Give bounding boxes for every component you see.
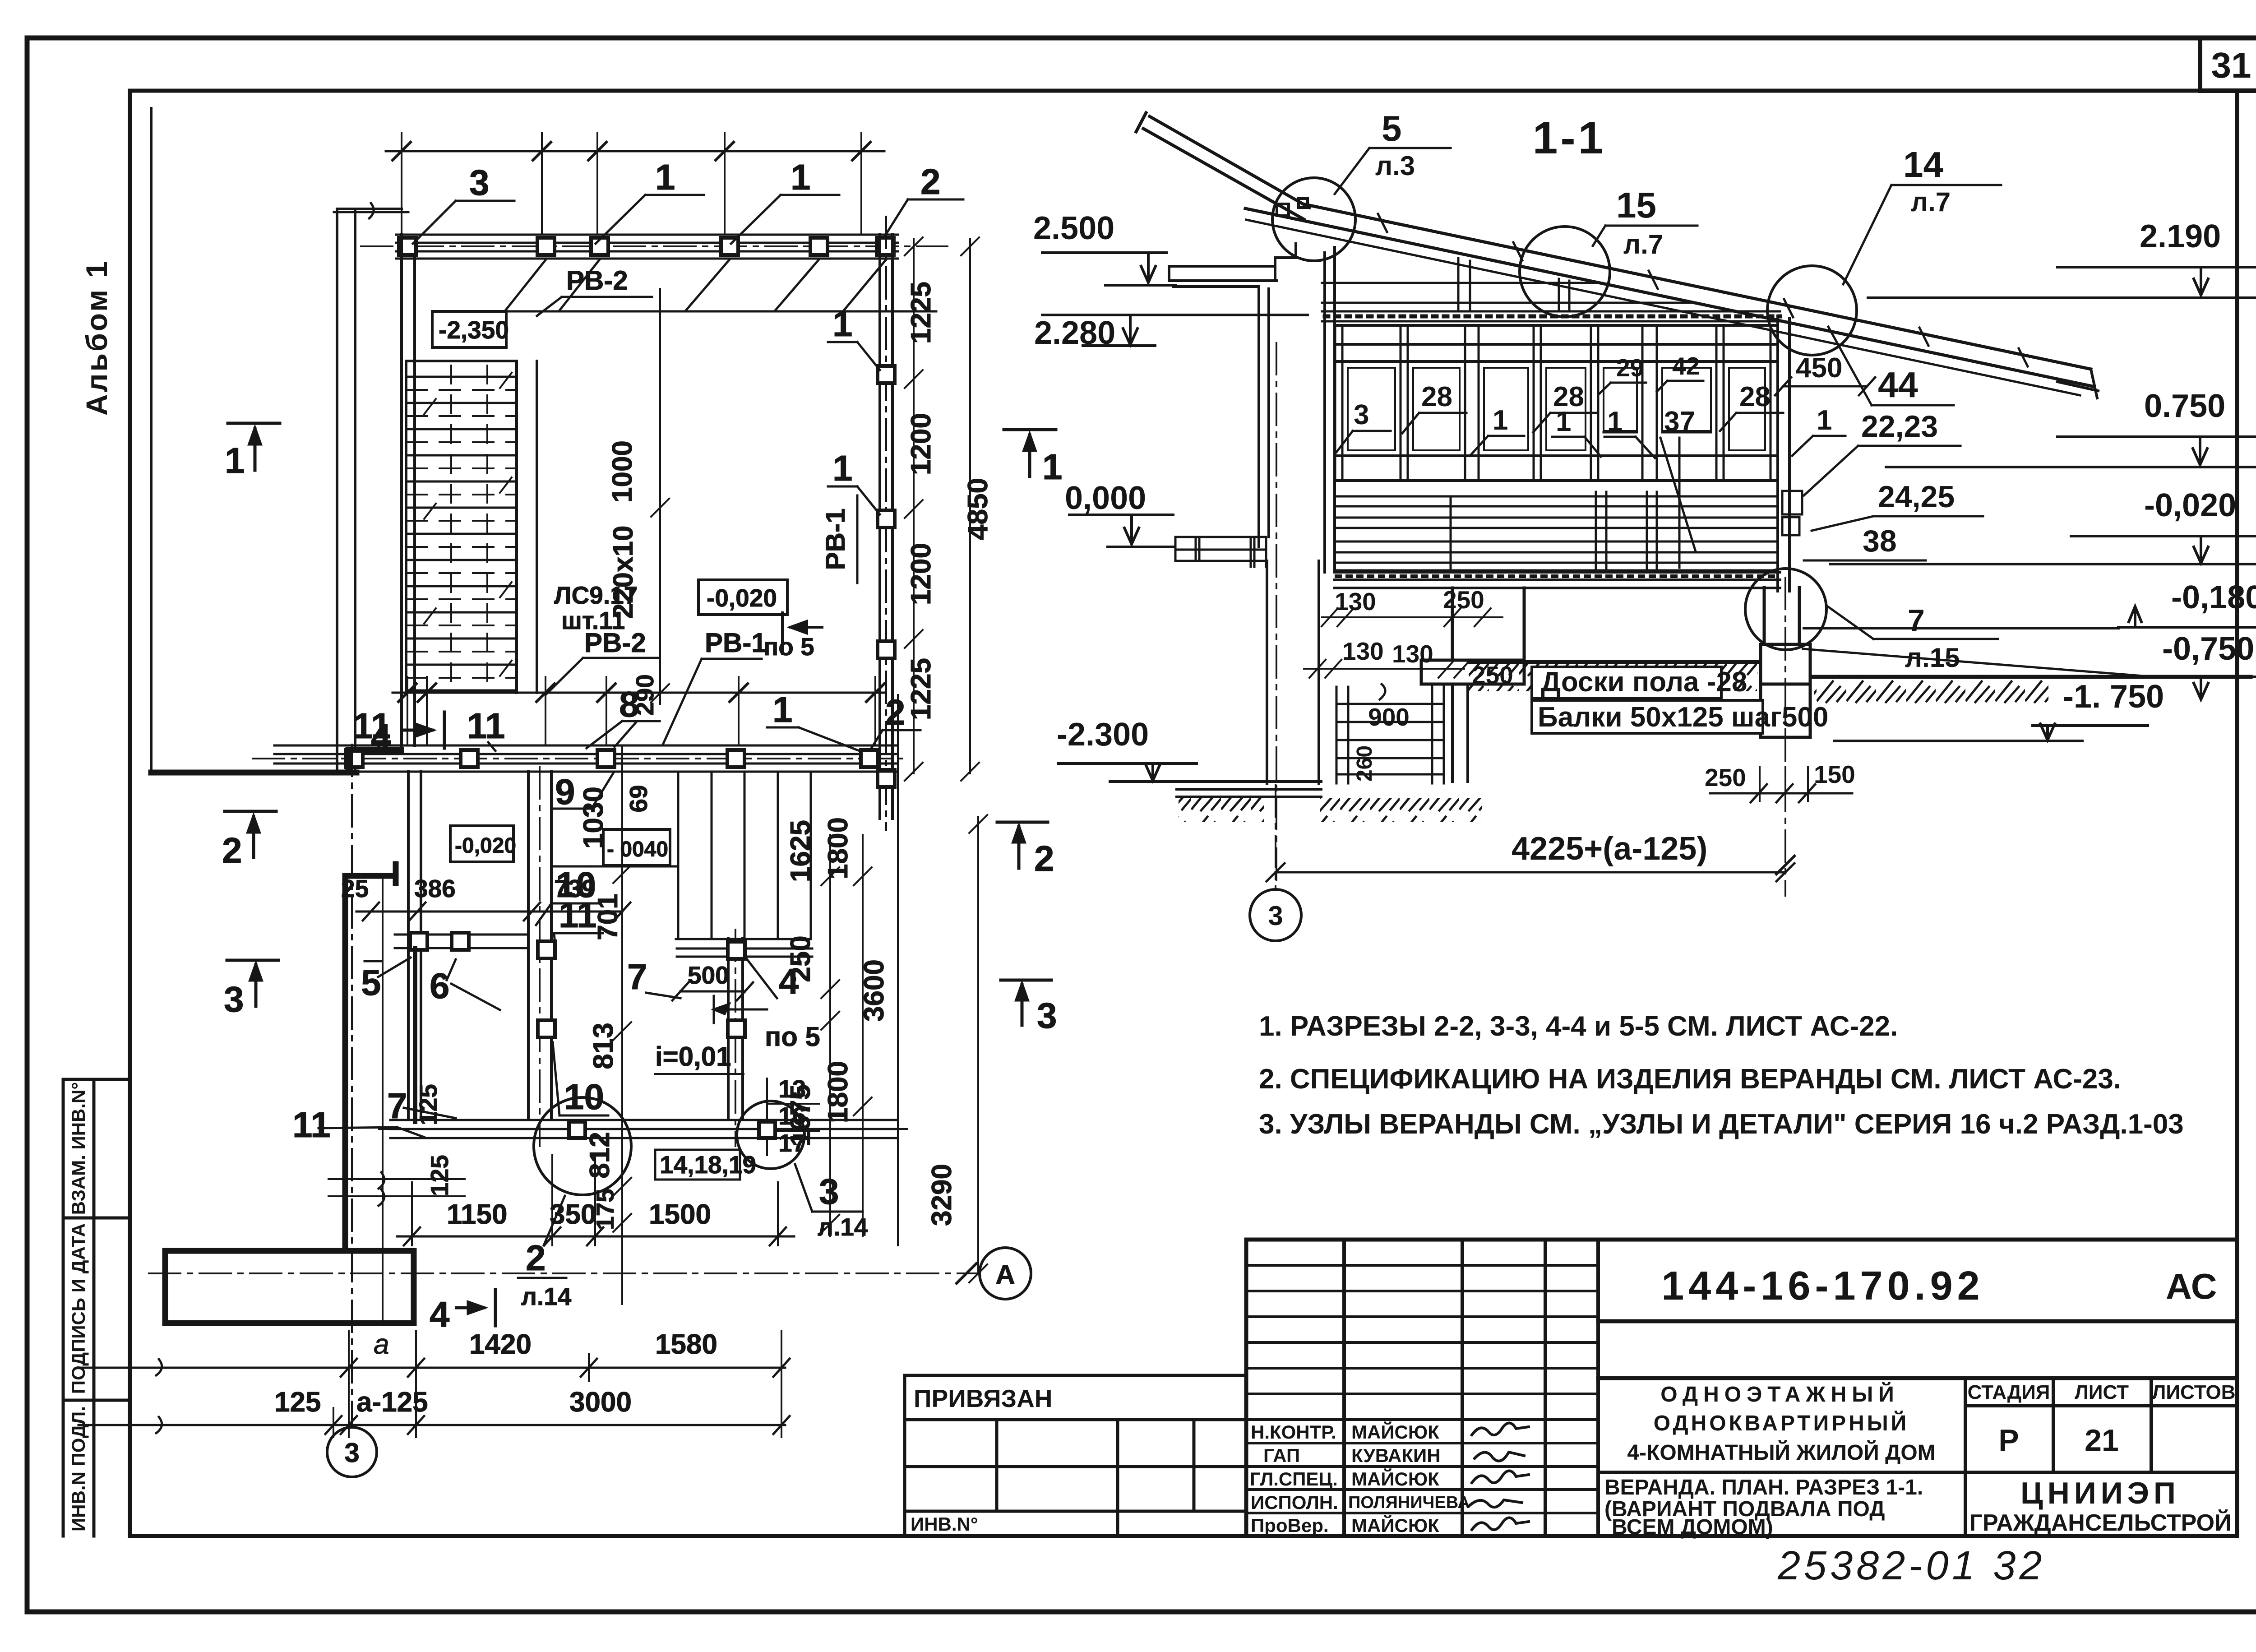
svg-text:250: 250 [1472,661,1513,689]
svg-text:МАЙСЮК: МАЙСЮК [1351,1421,1439,1443]
svg-text:3: 3 [344,1438,359,1468]
east wall [880,235,892,819]
svg-text:л.14: л.14 [818,1213,868,1241]
svg-text:3. УЗЛЫ ВЕРАНДЫ СМ. „УЗЛЫ И Д: 3. УЗЛЫ ВЕРАНДЫ СМ. „УЗЛЫ И ДЕТАЛИ" СЕРИ… [1259,1109,2184,1140]
floor note box 2 [1532,700,1763,733]
svg-text:РВ-2: РВ-2 [584,628,646,658]
svg-text:по 5: по 5 [763,633,814,661]
svg-text:31: 31 [2211,45,2251,85]
svg-text:-2.300: -2.300 [1057,717,1149,753]
svg-text:ОДНОЭТАЖНЫЙ: ОДНОЭТАЖНЫЙ [1660,1382,1900,1407]
lower east axis [735,930,736,1146]
svg-text:л.3: л.3 [1375,151,1415,181]
svg-text:по 5: по 5 [765,1022,820,1052]
svg-text:11: 11 [559,895,597,935]
title block outline [1246,1240,2237,1536]
svg-text:8: 8 [619,684,639,724]
bottom span dim [1267,863,1794,881]
svg-text:11: 11 [292,1105,331,1145]
svg-text:500: 500 [688,961,729,989]
left strip foundation [1421,588,1524,684]
svg-text:4850: 4850 [962,478,994,540]
svg-text:3: 3 [1354,399,1369,430]
basement level label [432,311,506,347]
section mark 2 left [225,811,276,857]
aux vertical line [382,878,384,1321]
window sashes [1348,368,1765,450]
section mark 3 right [1001,980,1051,1025]
wall corner piece [348,750,401,767]
svg-text:2. СПЕЦИФИКАЦИЮ НА ИЗДЕЛИЯ ВЕ: 2. СПЕЦИФИКАЦИЮ НА ИЗДЕЛИЯ ВЕРАНДЫ СМ. Л… [1259,1064,2121,1095]
svg-text:4-КОМНАТНЫЙ ЖИЛОЙ ДОМ: 4-КОМНАТНЫЙ ЖИЛОЙ ДОМ [1627,1440,1935,1465]
pier detail circle [1745,569,1826,650]
svg-text:3600: 3600 [859,959,890,1022]
signatures script [1472,1423,1529,1435]
dim 4850 line [961,237,979,781]
svg-text:1-1: 1-1 [1533,113,1606,163]
svg-text:350: 350 [550,1199,596,1230]
lower room south wall [390,1120,898,1138]
svg-text:6: 6 [430,966,450,1006]
west wall [402,235,415,745]
top dimension line [386,150,884,153]
leader 1a [596,195,704,244]
box 14 18 19 [655,1150,740,1180]
svg-text:7: 7 [1908,603,1925,638]
svg-text:7: 7 [627,957,647,997]
level box -0040 [603,829,670,865]
svg-text:1: 1 [225,440,245,481]
section mark 3 left [227,960,278,1006]
axis circle A [980,1248,1031,1299]
svg-text:ЦНИИЭП: ЦНИИЭП [2020,1476,2180,1510]
svg-text:1. РАЗРЕЗЫ 2-2, 3-3, 4-4 и 5-: 1. РАЗРЕЗЫ 2-2, 3-3, 4-4 и 5-5 СМ. ЛИСТ … [1259,1011,1898,1042]
top dim extension lines [402,133,861,235]
svg-text:29: 29 [1616,354,1644,382]
svg-text:1580: 1580 [655,1329,717,1360]
svg-text:1: 1 [832,304,853,344]
stair well [406,361,537,693]
south wall band [274,745,898,772]
small rail top lower room [395,935,528,948]
svg-text:a: a [374,1329,389,1360]
svg-text:1: 1 [655,157,675,197]
east post leaders 1 [828,342,880,370]
svg-text:ВЕРАНДА. ПЛАН. РАЗРЕЗ 1-1.: ВЕРАНДА. ПЛАН. РАЗРЕЗ 1-1. [1604,1476,1923,1499]
revision grid rows [1246,1265,1598,1513]
corner post right [1778,316,1789,591]
lower south posts [569,1122,775,1138]
bottom dim row 1150 350 1500 [397,1227,794,1245]
ground line left [1469,660,1757,664]
roof detail circle 3 [1767,266,1857,355]
south axis lower [379,1128,907,1130]
svg-text:АС: АС [2166,1266,2217,1306]
svg-text:250: 250 [1705,764,1746,791]
svg-text:900: 900 [1368,703,1410,731]
right lower dim column [821,835,839,1236]
svg-text:1: 1 [791,157,811,197]
svg-text:2.190: 2.190 [2140,218,2221,255]
svg-text:Н.КОНТР.: Н.КОНТР. [1251,1421,1336,1443]
svg-text:ПРИВЯЗАН: ПРИВЯЗАН [914,1384,1053,1412]
lower west axis [539,767,541,1146]
south wall posts [346,750,878,767]
floor dotted band [1335,572,1780,580]
left stamp strip [63,1079,130,1536]
svg-text:150: 150 [1814,760,1855,788]
svg-text:2: 2 [885,692,906,732]
svg-text:1000: 1000 [607,440,638,503]
leader 2 [883,199,963,238]
svg-text:11: 11 [467,706,505,746]
svg-text:ЛИСТОВ: ЛИСТОВ [2152,1381,2236,1403]
detail circle small [737,1101,804,1169]
svg-text:38: 38 [1863,524,1897,558]
pit right wall [1452,684,1468,782]
ground hatch right [1814,678,2048,705]
svg-text:1800: 1800 [823,1061,854,1123]
svg-text:4: 4 [371,717,391,757]
svg-text:РВ-2: РВ-2 [566,265,628,296]
svg-text:260: 260 [1353,745,1377,782]
rafter ticks [1378,214,2028,366]
svg-text:2.500: 2.500 [1033,210,1114,246]
svg-text:28: 28 [1739,381,1771,412]
svg-text:28: 28 [1421,381,1452,412]
interior dim line vertical [651,289,669,704]
svg-text:Р: Р [1998,1423,2019,1458]
svg-text:1420: 1420 [469,1329,532,1360]
svg-text:-2,350: -2,350 [439,316,509,344]
entrance step [1175,537,1266,567]
svg-text:130: 130 [1392,640,1433,668]
basement floor [1177,782,1321,797]
svg-text:7: 7 [387,1086,407,1126]
window frame verticals [1335,325,1778,481]
svg-text:л.7: л.7 [1911,187,1951,217]
left break lines [328,1179,465,1196]
svg-text:1500: 1500 [649,1199,711,1230]
svg-text:1150: 1150 [447,1199,508,1230]
break mark left dims [156,1359,162,1433]
section mark 2 right [997,822,1048,868]
svg-text:450: 450 [1796,352,1842,384]
svg-text:СТАДИЯ: СТАДИЯ [1968,1381,2050,1403]
section mark 1 left [228,423,280,470]
stair dashed mid treads [406,390,517,678]
roof detail circle 2 [1520,227,1610,317]
svg-text:ЛС9.17: ЛС9.17 [554,581,638,609]
detail circle big [534,1097,631,1195]
dim row 25 386 739 [356,902,630,921]
svg-text:4: 4 [430,1294,450,1334]
svg-text:ЛИСТ: ЛИСТ [2075,1381,2129,1403]
break squiggles [379,1172,384,1206]
svg-text:0.750: 0.750 [2144,388,2225,424]
cornice left [1169,244,1296,287]
pier axis [1784,578,1786,896]
house wall [1259,289,1319,783]
svg-text:250: 250 [785,935,816,982]
svg-text:-0,020: -0,020 [707,584,777,612]
house south wall thick [151,770,356,776]
top dim ticks [393,142,870,160]
svg-text:1200: 1200 [906,543,937,605]
roof main top chord [1303,204,2091,369]
balustrade boards [1336,496,1778,570]
east wall axis [885,217,887,830]
svg-text:2: 2 [222,830,242,870]
svg-text:0,000: 0,000 [1065,480,1146,516]
roof detail circle 1 [1272,178,1355,261]
lower room posts [538,941,745,1037]
svg-text:250: 250 [1443,586,1484,614]
svg-text:5: 5 [361,963,381,1003]
svg-text:3: 3 [469,162,490,203]
house edge walls lower [408,772,421,1119]
svg-text:37: 37 [1664,406,1695,437]
privyazan box [905,1375,1246,1536]
roof rafter upper steep [1136,113,1309,219]
svg-text:813: 813 [588,1023,619,1069]
svg-text:3: 3 [1037,995,1057,1036]
svg-text:ИНВ.N°: ИНВ.N° [911,1513,978,1535]
svg-text:4225+(a-125): 4225+(a-125) [1512,831,1707,867]
svg-text:ПОЛЯНИЧЕВА: ПОЛЯНИЧЕВА [1348,1493,1470,1512]
wire top-left extension [334,203,408,218]
svg-text:А: А [995,1259,1015,1290]
lower room east wall [728,939,743,1119]
floor beam line [1335,587,1780,589]
porch wall thick [345,864,396,1251]
revision grid verticals [1344,1240,1598,1536]
roof end cap [2057,369,2098,398]
svg-text:КУВАКИН: КУВАКИН [1351,1445,1441,1466]
svg-text:3: 3 [819,1171,839,1212]
svg-text:РВ-1: РВ-1 [705,628,767,658]
house west edge [150,108,153,773]
corridor dim line [613,747,631,1304]
svg-text:МАЙСЮК: МАЙСЮК [1351,1468,1439,1490]
post squares top wall [399,238,894,255]
level box -0,020 [698,580,787,615]
ridge joint hardware [1277,204,1289,216]
svg-text:ИСПОЛН.: ИСПОЛН. [1251,1492,1338,1513]
svg-text:1: 1 [1817,405,1832,436]
dim 500 [672,982,753,1000]
svg-text:25382-01 32: 25382-01 32 [1777,1543,2045,1588]
svg-text:22,23: 22,23 [1861,409,1938,444]
lower room west wall [528,772,551,1119]
ground slope from pier [1803,649,2143,676]
svg-text:1625: 1625 [785,820,816,882]
axis 3 section line [1275,785,1276,888]
svg-text:1: 1 [1556,406,1571,437]
svg-text:3: 3 [224,979,244,1019]
svg-text:МАЙСЮК: МАЙСЮК [1351,1514,1439,1536]
east wall posts [878,366,895,787]
svg-text:1225: 1225 [906,658,937,720]
svg-text:-0,750: -0,750 [2162,631,2254,667]
bottom dim line a 1420 1580 [79,1359,790,1377]
svg-text:1030: 1030 [578,787,609,849]
svg-text:-0,180: -0,180 [2171,579,2256,615]
svg-text:Альбом 1: Альбом 1 [80,259,113,416]
axis 3 section circle [1250,889,1301,941]
roof lower board [1246,220,2080,395]
svg-text:ВЗАМ. ИНВ.N°: ВЗАМ. ИНВ.N° [68,1082,89,1215]
svg-text:3290: 3290 [926,1164,957,1226]
pit ladder box [1336,687,1444,783]
svg-text:2: 2 [920,162,941,202]
header box line under 144-16-170.92 [1598,1319,2237,1323]
leader 3 [413,201,514,244]
bottom dim line 125 a-125 3000 [79,1416,790,1434]
se steps [676,772,812,957]
svg-text:1675: 1675 [785,1084,816,1147]
svg-text:i=0,01: i=0,01 [655,1041,731,1072]
stair treads [406,377,517,690]
svg-text:1800: 1800 [823,817,854,879]
svg-text:1: 1 [1042,447,1063,487]
floor note box 1 [1532,667,1721,699]
svg-text:3000: 3000 [569,1387,632,1418]
svg-text:ОДНОКВАРТИРНЫЙ: ОДНОКВАРТИРНЫЙ [1654,1411,1909,1435]
svg-text:Балки 50х125 шаг500: Балки 50х125 шаг500 [1538,702,1828,733]
page number box 31 [2200,38,2256,91]
svg-text:9: 9 [555,772,575,812]
svg-text:21: 21 [2085,1423,2119,1458]
svg-text:ГРАЖДАНСЕЛЬСТРОЙ: ГРАЖДАНСЕЛЬСТРОЙ [1969,1509,2232,1536]
svg-text:- 0040: - 0040 [607,838,668,861]
svg-text:1: 1 [1607,406,1623,437]
svg-text:14,18,19: 14,18,19 [660,1151,756,1179]
ground hatch left [1469,663,1757,691]
svg-text:42: 42 [1672,352,1700,380]
south dim extensions [407,677,875,745]
svg-text:2: 2 [526,1238,546,1278]
svg-text:125: 125 [274,1387,321,1418]
bottom dim extensions verticals [333,1331,781,1437]
pit break mark [1380,684,1385,699]
svg-text:ПроВер.: ПроВер. [1251,1515,1329,1536]
svg-text:69: 69 [624,785,652,812]
svg-text:РВ-1: РВ-1 [820,509,851,570]
svg-text:14: 14 [1903,144,1943,185]
svg-text:л.14: л.14 [521,1282,572,1310]
ceiling dotted band [1322,311,1780,321]
veranda left posts [1325,247,1335,572]
svg-text:3: 3 [1268,901,1283,931]
svg-text:15: 15 [1616,185,1656,225]
svg-text:1: 1 [772,689,793,730]
top wall axis [361,245,948,247]
wedge posts [1458,258,1569,311]
svg-text:ГЛ.СПЕЦ.: ГЛ.СПЕЦ. [1250,1468,1338,1490]
ground line right [1814,675,2251,679]
section mark 1 right [1004,430,1056,477]
right dim column line [905,237,923,781]
pier axis tick [1776,856,1794,874]
leader baseline pb2 [445,259,936,311]
svg-text:a-125: a-125 [356,1387,428,1418]
svg-text:л.15: л.15 [1905,643,1960,673]
svg-text:1: 1 [832,448,853,488]
axis A line [149,1273,978,1274]
level box -0,020 lower [450,826,513,862]
leader 1b [731,195,839,244]
svg-text:1: 1 [1493,405,1508,436]
lower room north wall [551,865,676,868]
roof bottom chord [1245,208,2094,387]
svg-text:1225: 1225 [906,282,937,344]
svg-text:л.7: л.7 [1623,229,1663,259]
house axis [1276,343,1277,887]
svg-text:2: 2 [1034,838,1054,879]
corner pier [1761,588,1810,737]
svg-text:125: 125 [425,1155,453,1196]
south wall axis [253,758,907,759]
stamp column lines [1598,1378,2237,1536]
svg-text:24,25: 24,25 [1878,480,1955,514]
hatch under house [1179,798,1264,822]
south dim row line [393,692,884,694]
svg-text:1200: 1200 [906,413,937,475]
thick wall segment lower west [413,948,417,1122]
balustrade breaks [1451,492,1657,570]
top plate lines [1322,283,1690,303]
house wall lines [337,209,402,773]
svg-text:-0,020: -0,020 [2144,487,2236,523]
svg-text:44: 44 [1878,365,1918,405]
bottom dim extensions [412,1155,778,1245]
svg-text:130: 130 [1342,637,1384,665]
axis circle 3 plan [327,1427,377,1477]
porch slab thick [165,1251,414,1323]
bracket 22 23 [1782,491,1802,514]
axis A tick [957,1263,976,1283]
svg-text:5: 5 [1382,108,1402,148]
svg-text:-1. 750: -1. 750 [2063,679,2164,715]
svg-text:-0,020: -0,020 [455,834,516,858]
svg-text:Доски пола -28: Доски пола -28 [1541,666,1747,698]
svg-text:130: 130 [1335,588,1376,615]
svg-text:144-16-170.92: 144-16-170.92 [1661,1263,1984,1309]
svg-text:ГАП: ГАП [1263,1445,1300,1466]
south dim ticks [398,684,884,702]
axis line 3 vertical [351,745,353,1426]
dim 3290 line [969,815,987,1282]
stair dashed rails [451,366,487,690]
stair tick marks [424,373,512,676]
svg-text:ВСЕМ ДОМОМ): ВСЕМ ДОМОМ) [1612,1515,1773,1539]
main title section top line [1598,1376,2237,1380]
top wall band [396,235,898,259]
po5 arrow [782,613,822,653]
svg-text:386: 386 [414,875,456,902]
window band horizontals [1335,325,1778,481]
